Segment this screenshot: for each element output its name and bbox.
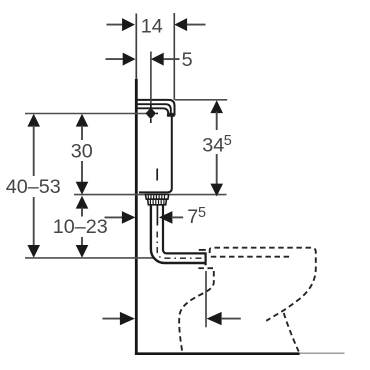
flush valve upper nut [145,195,168,200]
svg-text:7: 7 [187,206,198,228]
cistern front face and bottom [139,115,172,192]
leader line at lid top [175,99,227,101]
svg-text:14: 14 [141,16,163,38]
mounting screw symbol [146,104,159,123]
svg-text:10–23: 10–23 [53,216,108,238]
flush valve lower nut [148,199,167,205]
dimension 14 [107,13,206,100]
svg-text:30: 30 [71,140,93,162]
svg-text:5: 5 [224,133,232,149]
svg-text:5: 5 [182,49,193,71]
svg-text:40–53: 40–53 [6,176,61,198]
toilet inner rim line dashed [211,256,290,258]
wall extension line above [135,14,137,80]
outlet centerline stub inside cistern [156,169,158,181]
dimension 34.5 [202,100,232,196]
flush pipe right edge and inner bend [163,205,205,254]
dimension 10-23 [53,196,108,258]
flush pipe centerline dash-dot [157,232,205,259]
dimension 5 [106,49,193,71]
leader line at pipe center [25,257,154,259]
cistern lid step [167,114,175,116]
dimension 30 [71,114,93,195]
toilet pedestal front dashed [284,313,299,352]
dimension 40-53 [6,114,61,258]
dimension 7.5 [105,205,207,228]
toilet rear outline dashed [179,268,214,352]
cistern lid outer line [138,100,175,116]
bottom left arrow at wall [103,312,135,325]
mounting screw extension line [150,52,152,109]
cistern lid middle line [138,104,171,115]
flush pipe left edge and outer bend [151,205,205,263]
floor faint continuation [300,352,345,354]
svg-text:34: 34 [202,135,224,157]
flush pipe end cap [205,252,207,265]
toilet spigot top dash [199,249,206,251]
flush pipe inner telescopic line [156,205,158,226]
floor [135,352,300,355]
cistern lid inner line [138,108,169,115]
svg-text:5: 5 [198,205,206,221]
toilet bowl rim outline dashed [210,248,316,321]
wall [135,79,138,355]
leader line at cistern bottom [74,194,227,196]
bottom right arrow at toilet rear [206,271,241,327]
leader line at screw height [25,113,146,115]
